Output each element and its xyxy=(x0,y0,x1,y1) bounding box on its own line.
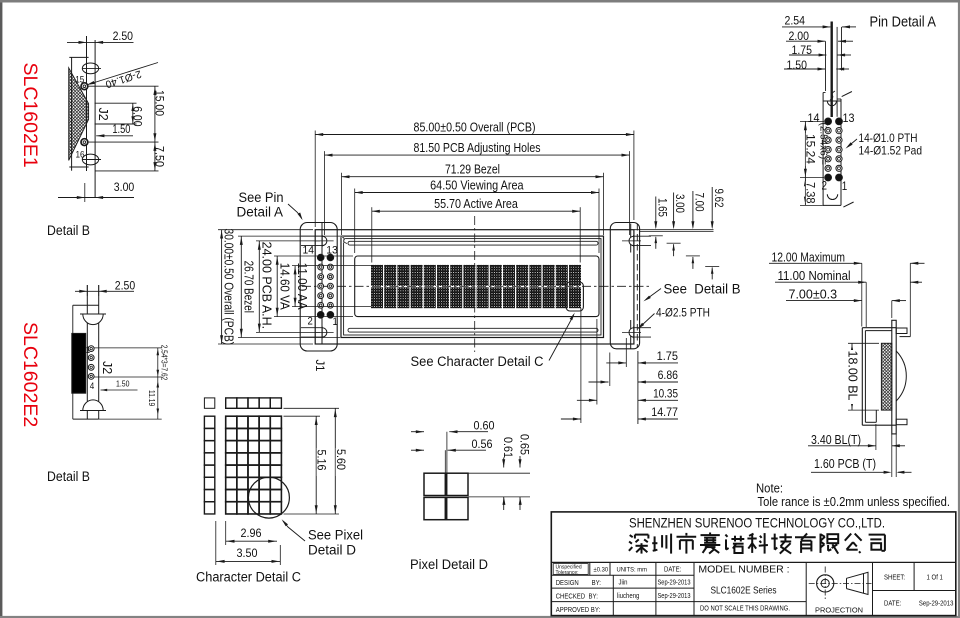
break mark upper xyxy=(830,91,852,100)
svg-text:DESIGN: DESIGN xyxy=(556,580,579,587)
pin 1 label (main) xyxy=(333,316,338,328)
bezel top slot xyxy=(348,241,598,245)
svg-text:85.00±0.50 Overall (PCB): 85.00±0.50 Overall (PCB) xyxy=(414,120,536,134)
svg-text:3.50: 3.50 xyxy=(237,546,258,560)
mounting hole 2.5 PTH top-left xyxy=(301,235,334,247)
svg-text:11.00 AA: 11.00 AA xyxy=(295,263,309,311)
svg-text:5.16: 5.16 xyxy=(315,450,329,471)
connector tab J1 outline xyxy=(300,223,337,352)
svg-text:64.50 Viewing Area: 64.50 Viewing Area xyxy=(430,178,523,192)
svg-text:0.56: 0.56 xyxy=(472,437,493,451)
chinese character 有 xyxy=(795,533,816,553)
side view PCB xyxy=(892,320,896,434)
pin 16 label xyxy=(76,150,85,161)
dimension 1.60 PCB (T) xyxy=(811,434,912,477)
dimension 3.40 BL(T) xyxy=(808,424,905,450)
svg-text:15.24: 15.24 xyxy=(804,134,818,164)
connector J2 label (B1) xyxy=(96,108,110,121)
svg-text:1.50: 1.50 xyxy=(116,379,130,389)
svg-text:J1: J1 xyxy=(313,360,327,372)
model number value xyxy=(711,586,777,597)
J1 connector body edge xyxy=(321,223,323,344)
svg-text:1.50: 1.50 xyxy=(112,124,130,136)
dimension 3.00 (B1) xyxy=(58,180,135,199)
bezel edge break mark xyxy=(341,237,347,244)
half hole bottom (detail A) xyxy=(827,194,837,199)
svg-text:14: 14 xyxy=(808,113,821,125)
date cell xyxy=(884,601,953,608)
company name chinese 深圳市襄诺科技有限公司 xyxy=(629,533,885,554)
dimension 30.00±0.50 Overall (PCB) xyxy=(218,229,313,346)
projection label xyxy=(815,606,863,615)
dimension 11.00 Nominal xyxy=(775,269,922,327)
svg-text:18.00 BL: 18.00 BL xyxy=(846,351,860,401)
checked by row xyxy=(556,593,691,601)
svg-text:1: 1 xyxy=(842,181,848,193)
half hole top (detail A) xyxy=(823,101,841,117)
units cell xyxy=(617,567,648,574)
pin 1 label (detail A) xyxy=(842,181,848,193)
svg-text:Character Detail C: Character Detail C xyxy=(196,570,301,585)
svg-text:See Character Detail C: See Character Detail C xyxy=(411,354,544,369)
dimension 1.50 (B1) xyxy=(96,124,133,137)
Detail B2 bottom half hole xyxy=(80,400,106,411)
Detail B2 top half hole xyxy=(80,314,106,325)
dimension 2.50 (B1) xyxy=(67,29,134,44)
dimension 2.50 (B2) xyxy=(75,278,135,296)
svg-text:2: 2 xyxy=(822,181,828,193)
dimension 5.16 xyxy=(284,416,329,514)
callout See Character Detail C xyxy=(411,313,575,369)
svg-text:26.70 Bezel: 26.70 Bezel xyxy=(241,261,255,313)
annotation (2.54x6)= xyxy=(818,123,829,166)
approved by row xyxy=(556,607,601,614)
Detail B1 top edge pad xyxy=(82,63,101,74)
svg-text:1.60 PCB (T): 1.60 PCB (T) xyxy=(814,457,876,471)
svg-text:2: 2 xyxy=(308,316,313,328)
svg-text:1.50: 1.50 xyxy=(787,58,808,72)
svg-text:7.00: 7.00 xyxy=(693,193,705,212)
callout See Pixel Detail D xyxy=(282,519,363,557)
svg-text:SLC1602E1: SLC1602E1 xyxy=(19,63,41,168)
chinese character 市 xyxy=(677,533,697,554)
svg-text:See Pin: See Pin xyxy=(239,190,284,205)
mounting hole 2.5 PTH bottom-left xyxy=(301,327,334,339)
side view bezel front xyxy=(862,328,896,426)
svg-text:13: 13 xyxy=(843,113,855,125)
label Detail B (top) xyxy=(47,223,90,238)
svg-text:2.54*3=7.62: 2.54*3=7.62 xyxy=(159,345,168,381)
svg-text:14.60 VA: 14.60 VA xyxy=(277,263,291,311)
svg-text:Tole rance is ±0.2mm unless sp: Tole rance is ±0.2mm unless specified. xyxy=(758,494,951,509)
svg-text:10.35: 10.35 xyxy=(653,387,678,401)
model number label xyxy=(698,564,789,576)
sheet cell xyxy=(884,575,943,582)
svg-text:J2: J2 xyxy=(100,361,114,374)
label Detail B (middle) xyxy=(47,469,90,484)
viewing area window xyxy=(355,256,599,317)
pin 13 label (detail A) xyxy=(843,113,855,125)
svg-text:4: 4 xyxy=(90,381,95,392)
svg-text:2.54: 2.54 xyxy=(785,13,806,27)
callout See Detail B xyxy=(643,282,740,302)
svg-text:3.00: 3.00 xyxy=(114,180,135,194)
label Character Detail C xyxy=(196,570,301,585)
character detail adjacent cells top xyxy=(204,398,281,408)
svg-text:13: 13 xyxy=(326,245,338,257)
connector J2 label (B2) xyxy=(100,361,114,374)
dimension 0.60 xyxy=(411,419,495,474)
callout 14-Ø1.52 Pad xyxy=(859,144,923,158)
break mark lower xyxy=(843,202,853,207)
design by row xyxy=(556,580,691,588)
svg-text:Detail A: Detail A xyxy=(237,205,284,220)
right tab inner edge segments xyxy=(630,224,632,349)
dimension 15.00 (B1) xyxy=(88,86,167,142)
svg-text:3.40 BL(T): 3.40 BL(T) xyxy=(811,433,861,447)
svg-text:55.70 Active Area: 55.70 Active Area xyxy=(434,197,518,211)
dimension 1.75 xyxy=(606,338,678,367)
dimension 55.70 Active Area xyxy=(372,197,580,263)
svg-text:Detail B: Detail B xyxy=(47,469,90,484)
svg-text:7.38: 7.38 xyxy=(804,182,818,204)
projection symbol target xyxy=(809,567,842,601)
svg-text:1: 1 xyxy=(86,345,91,356)
svg-text:1.75: 1.75 xyxy=(657,349,679,363)
dimension 6.00 (B1) xyxy=(95,103,145,127)
dimension 5.60 xyxy=(284,408,348,514)
Detail B1 PCB edge strip xyxy=(69,36,95,202)
dimension 11.00 AA xyxy=(292,263,371,311)
chinese character 襄 xyxy=(700,533,720,554)
svg-text:SHENZHEN SURENOO TECHNOLOGY CO: SHENZHEN SURENOO TECHNOLOGY CO.,LTD. xyxy=(629,515,885,531)
dimension 26.70 Bezel xyxy=(238,236,340,337)
pin 4 label (B2) xyxy=(90,381,95,392)
svg-text:81.50 PCB Adjusting Holes: 81.50 PCB Adjusting Holes xyxy=(414,141,541,155)
dimension 0.61 xyxy=(468,437,530,510)
J1 pin holes 2x7 xyxy=(317,254,333,318)
PCB outline xyxy=(315,230,634,344)
svg-text:Sep-29-2013: Sep-29-2013 xyxy=(658,580,691,587)
pixel detail 2x2 squares xyxy=(424,473,468,520)
label Pixel Detail D xyxy=(410,557,488,572)
dimension 0.65 xyxy=(468,434,531,510)
dimension 10.35 xyxy=(577,319,678,405)
svg-text:Pin Detail A: Pin Detail A xyxy=(870,15,937,31)
pin strip (detail A) xyxy=(823,22,841,117)
svg-text:6.86: 6.86 xyxy=(658,368,679,382)
vertical centerline xyxy=(474,216,476,352)
dimension 2.96 xyxy=(226,521,277,545)
PCB top edge extension lines right xyxy=(634,230,714,232)
svg-text:±0.30: ±0.30 xyxy=(594,567,609,574)
pin 14 label (detail A) xyxy=(808,113,821,125)
dimension 15.24 xyxy=(800,121,824,177)
svg-text:DATE:: DATE: xyxy=(884,601,901,608)
svg-text:12.00 Maximum: 12.00 Maximum xyxy=(772,250,846,264)
svg-text:2.96: 2.96 xyxy=(241,526,262,540)
dimension 14.60 VA xyxy=(274,256,353,317)
bezel bottom rear tab xyxy=(896,419,907,425)
dimension 3.50 xyxy=(216,521,280,565)
dimension 1.65 xyxy=(649,197,668,249)
chinese character 限 xyxy=(821,534,839,554)
callout 4-Ø2.5 PTH xyxy=(637,306,710,330)
dimension 3.00 xyxy=(667,193,686,257)
model label SLC1602E2 xyxy=(19,322,41,427)
pin 1 label (B2) xyxy=(86,345,91,356)
svg-text:BY:: BY: xyxy=(592,580,601,587)
dimension 24.00 PCB A.H. xyxy=(256,241,320,333)
svg-text:7.50: 7.50 xyxy=(153,146,167,167)
dimension 12.00 Maximum xyxy=(769,250,925,336)
dimension 1.75 xyxy=(789,43,851,57)
pin 16 pad xyxy=(81,139,88,146)
svg-text:Pixel Detail D: Pixel Detail D xyxy=(410,557,488,572)
dimension 7.00±0.3 xyxy=(786,288,906,318)
date header cell xyxy=(664,567,681,574)
svg-text:11.19: 11.19 xyxy=(147,390,157,406)
model label SLC1602E1 xyxy=(19,63,41,168)
svg-text:3.00: 3.00 xyxy=(673,194,685,213)
svg-text:UNITS: mm: UNITS: mm xyxy=(617,567,648,574)
chinese character 司 xyxy=(869,535,885,551)
svg-text:Sep-29-2013: Sep-29-2013 xyxy=(919,601,954,608)
svg-text:6.00: 6.00 xyxy=(131,106,145,127)
svg-text:Tolerance:: Tolerance: xyxy=(556,570,579,576)
dimension 7.38 xyxy=(800,178,824,206)
Detail B2 PCB edge strip xyxy=(73,285,99,419)
mounting hole 2.5 PTH top-right xyxy=(622,235,651,247)
company name english xyxy=(629,515,885,531)
dimension 7.50 (B1) xyxy=(95,142,167,171)
svg-text:MODEL NUMBER :: MODEL NUMBER : xyxy=(698,564,789,576)
chinese character 科 xyxy=(747,533,768,554)
svg-text:71.29 Bezel: 71.29 Bezel xyxy=(445,163,500,177)
dimension 1.50 (pin) xyxy=(784,58,849,72)
svg-text:SHEET:: SHEET: xyxy=(884,575,905,582)
svg-text:1.65: 1.65 xyxy=(655,198,667,217)
pin 2 label (main) xyxy=(308,316,313,328)
svg-text:0.60: 0.60 xyxy=(474,419,495,433)
svg-text:15.00: 15.00 xyxy=(153,90,167,116)
pin 15 label xyxy=(75,75,84,86)
character detail main 5x8 grid xyxy=(226,416,282,514)
side view LCD glass crosshatch xyxy=(881,343,891,410)
svg-text:APPROVED BY:: APPROVED BY: xyxy=(556,607,601,614)
svg-text:Jiin: Jiin xyxy=(619,580,628,587)
svg-text:16: 16 xyxy=(76,150,85,161)
projection symbol cone xyxy=(843,572,872,594)
svg-text:2.50: 2.50 xyxy=(115,278,136,292)
pin pads 2x7 (detail A) xyxy=(825,118,843,181)
svg-text:CHECKED BY:: CHECKED BY: xyxy=(556,593,598,600)
do not scale note xyxy=(700,604,790,613)
chinese character 深 xyxy=(629,535,649,554)
svg-text:See Detail B: See Detail B xyxy=(664,282,741,297)
dimension 18.00 BL xyxy=(846,343,879,410)
backlight lens arc xyxy=(896,351,906,401)
bezel rear top edge xyxy=(900,336,911,338)
chinese character 圳 xyxy=(652,534,671,554)
pin 2 label (detail A) xyxy=(822,181,828,193)
chinese character 公 xyxy=(845,534,862,553)
highlighted character cell xyxy=(566,282,583,311)
character detail adjacent cells left xyxy=(204,416,214,514)
dimension 2.54*3=7.62 (B2) xyxy=(94,345,168,381)
title block grid xyxy=(551,512,956,616)
svg-text:SLC1602E Series: SLC1602E Series xyxy=(711,586,777,597)
svg-text:See Pixel: See Pixel xyxy=(308,528,363,543)
hidden edge dashed line (right tab) xyxy=(636,224,638,348)
J2 pads 1-4 xyxy=(88,346,94,380)
svg-text:DO NOT SCALE THIS DRAWING.: DO NOT SCALE THIS DRAWING. xyxy=(700,604,790,613)
pin 14 label (main) xyxy=(303,245,315,257)
dimension 9.62 xyxy=(705,187,724,279)
pin 15 pad xyxy=(81,83,88,90)
tolerance cell xyxy=(553,564,588,576)
right end tab outline xyxy=(610,223,639,349)
dimension 81.50 PCB Adjusting Holes xyxy=(325,141,630,235)
dimension 14.77 xyxy=(561,308,678,423)
svg-text:liucheng: liucheng xyxy=(617,593,639,600)
dimension 7.00 xyxy=(686,191,705,269)
dimension 1.50 (B2) xyxy=(101,379,138,392)
bezel outline xyxy=(341,236,604,337)
pixel detail circle xyxy=(248,477,289,518)
tolerance value xyxy=(594,567,609,574)
svg-text:30.00±0.50 Overall (PCB): 30.00±0.50 Overall (PCB) xyxy=(222,229,236,346)
dimension 71.29 Bezel xyxy=(342,163,604,236)
pin 13 label (main) xyxy=(326,245,338,257)
Detail B2 connector body xyxy=(72,333,86,393)
dimension 11.19 (B2) xyxy=(99,377,162,419)
svg-text:Detail D: Detail D xyxy=(308,543,356,558)
connector body outline (detail A) xyxy=(823,93,841,206)
svg-text:24.00 PCB A.H.: 24.00 PCB A.H. xyxy=(259,242,273,330)
Detail B1 bottom edge pad xyxy=(82,154,101,165)
svg-text:0.61: 0.61 xyxy=(501,437,515,458)
chinese character 技 xyxy=(771,534,792,554)
svg-text:9.62: 9.62 xyxy=(712,189,724,208)
dimension 2.54 (pin pitch) xyxy=(782,13,856,28)
LCD active area character matrix 16x2 xyxy=(371,265,581,308)
horizontal centerline xyxy=(302,285,651,287)
svg-text:14.77: 14.77 xyxy=(651,405,678,419)
svg-text:7.00±0.3: 7.00±0.3 xyxy=(789,288,838,302)
label Pin Detail A xyxy=(870,15,937,31)
svg-text:5.60: 5.60 xyxy=(334,449,348,470)
svg-text:DATE:: DATE: xyxy=(664,567,681,574)
note text xyxy=(756,481,950,510)
dimension 6.86 xyxy=(589,353,679,387)
svg-text:4-Ø2.5 PTH: 4-Ø2.5 PTH xyxy=(656,306,710,320)
callout 2-Ø1.40 xyxy=(87,63,159,91)
dimension 0.56 xyxy=(411,437,493,473)
svg-text:1: 1 xyxy=(333,316,338,328)
dimension 85.00±0.50 Overall (PCB) xyxy=(315,120,634,227)
svg-text:2.50: 2.50 xyxy=(113,29,134,43)
Detail B1 crosshatch connector xyxy=(69,68,89,160)
chinese character 诺 xyxy=(725,535,744,553)
callout See Pin Detail A xyxy=(237,190,303,220)
svg-text:Detail B: Detail B xyxy=(47,223,90,238)
callout 14-Ø1.0 PTH xyxy=(846,131,918,149)
svg-text:Sep-29-2013: Sep-29-2013 xyxy=(658,593,691,600)
connector J1 label xyxy=(313,360,327,372)
svg-text:0.65: 0.65 xyxy=(518,434,532,455)
svg-text:SLC1602E2: SLC1602E2 xyxy=(19,322,41,427)
svg-text:15: 15 xyxy=(75,75,84,86)
svg-text:J2: J2 xyxy=(96,108,110,121)
dimension 64.50 Viewing Area xyxy=(355,178,599,253)
dimension 2.00 xyxy=(786,29,853,43)
svg-text:11.00 Nominal: 11.00 Nominal xyxy=(778,269,851,283)
right edge extension line xyxy=(637,351,639,424)
svg-text:14: 14 xyxy=(303,245,315,257)
svg-text:1 Of 1: 1 Of 1 xyxy=(927,575,943,582)
bezel bottom slot xyxy=(348,328,598,332)
svg-text:14-Ø1.52 Pad: 14-Ø1.52 Pad xyxy=(859,144,923,158)
bezel top rear tab xyxy=(896,328,907,334)
mounting hole 2.5 PTH bottom-right xyxy=(622,327,651,339)
svg-text:PROJECTION: PROJECTION xyxy=(815,606,863,615)
